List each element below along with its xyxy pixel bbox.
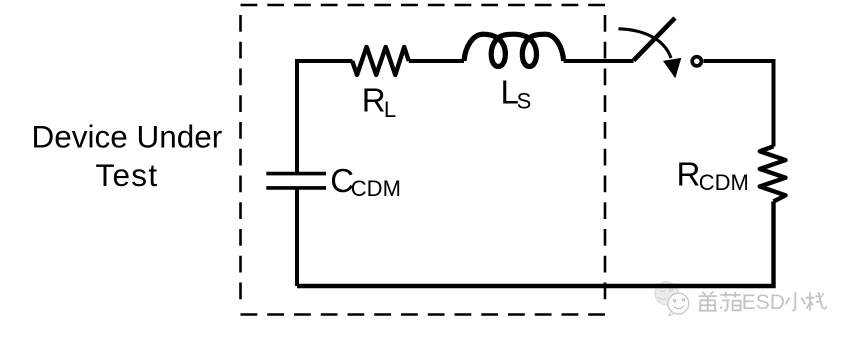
resistor R_CDM body xyxy=(760,146,786,201)
svg-text:Device Under: Device Under xyxy=(31,118,222,154)
watermark text 番茄ESD小栈 (gray faux glyph strokes) xyxy=(699,292,827,311)
capacitor C_CDM top plate xyxy=(266,172,326,176)
svg-text:CDM: CDM xyxy=(351,176,401,201)
svg-text:L: L xyxy=(384,97,396,122)
svg-text:S: S xyxy=(517,88,532,113)
switch S1 contact circle xyxy=(692,57,701,66)
switch S1 closing arc xyxy=(618,29,671,58)
wire: contact to top-right corner down to R_CDM xyxy=(704,61,774,147)
DUT boundary dashed box xyxy=(241,5,606,315)
watermark logo front face circle xyxy=(668,293,689,316)
svg-text:CDM: CDM xyxy=(699,170,749,195)
svg-text:R: R xyxy=(677,156,701,193)
switch S1 arrowhead xyxy=(663,58,681,78)
wire: L_S to switch hinge xyxy=(564,59,634,63)
inductor L_S body xyxy=(464,34,564,66)
switch S1 blade xyxy=(634,18,676,61)
resistor R_L body xyxy=(352,47,409,75)
capacitor C_CDM bottom plate xyxy=(266,186,326,190)
watermark text 番茄ESD小栈 (emboss highlight layer) xyxy=(700,293,828,312)
svg-text:ESD: ESD xyxy=(742,291,785,314)
svg-text:Test: Test xyxy=(95,157,158,193)
wire: R_CDM to bottom-right corner and bottom wire xyxy=(297,202,774,287)
watermark logo tomato back circle xyxy=(655,282,678,305)
svg-text:R: R xyxy=(362,82,386,119)
wire: R_L to L_S xyxy=(409,59,464,63)
wire: left vertical upper + top wire to R_L xyxy=(297,61,353,173)
wire: left vertical lower (bottom wire to C_CDM) xyxy=(295,189,299,286)
label: Device Under Test xyxy=(31,118,222,193)
